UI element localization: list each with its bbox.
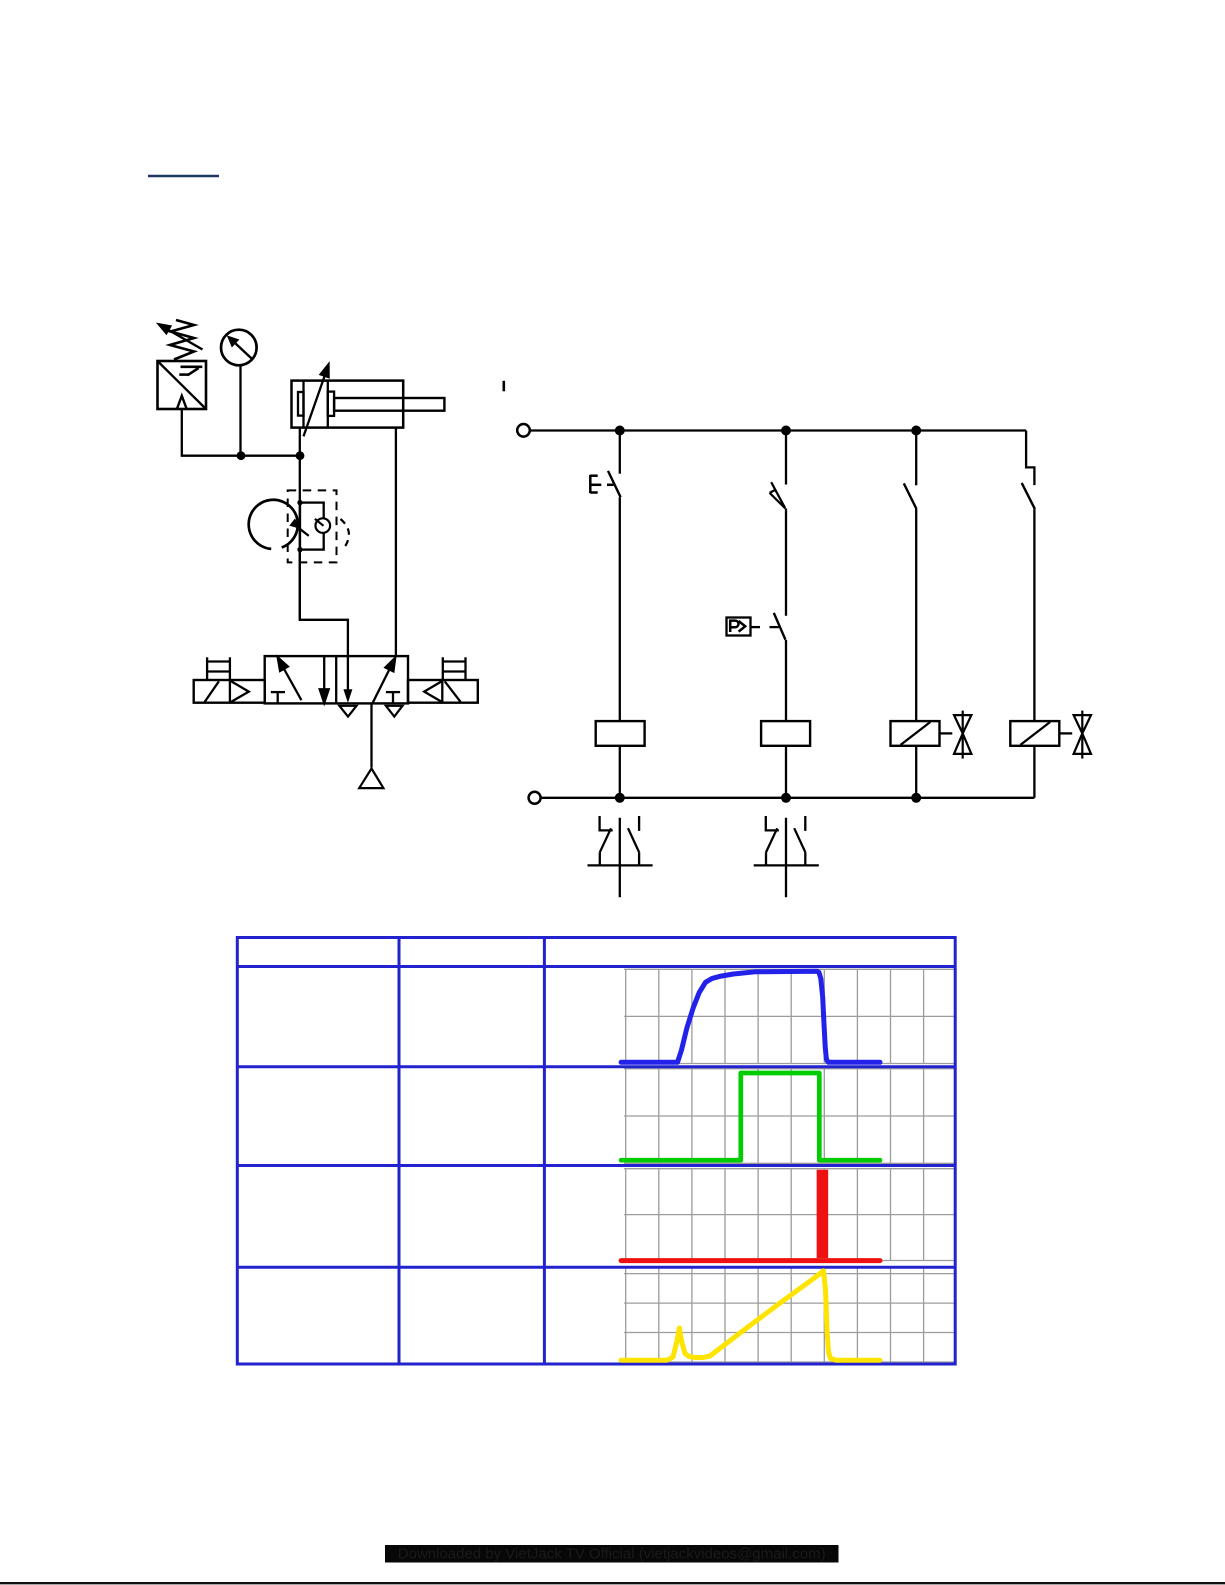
cylinder A1 body xyxy=(292,381,404,428)
flow control valve V2 node top xyxy=(297,500,302,505)
wire top rail xyxy=(530,429,1026,431)
cylinder A1 piston rod xyxy=(334,398,444,411)
relay coil K1 xyxy=(596,721,645,746)
directional valve V1 left cell flow arrow xyxy=(278,657,302,700)
pressure switch B1 adjustment spring xyxy=(170,320,194,360)
solenoid Y1 box left xyxy=(194,680,265,703)
pressure switch link dashes xyxy=(751,626,780,628)
limit switch S3 xyxy=(754,816,819,897)
chart grid row 4 xyxy=(624,1268,957,1363)
wire branch 1 upper xyxy=(619,431,621,474)
flow control valve V2 adjust stroke xyxy=(300,529,309,536)
pressure switch contact blade xyxy=(774,613,786,640)
node bottom rail 3 xyxy=(911,793,921,803)
exhaust triangle port 5 xyxy=(386,706,403,717)
directional valve V1 right cell flow arrow xyxy=(372,658,395,704)
terminal circle bottom rail xyxy=(529,792,541,804)
solenoid Y2 manual override xyxy=(443,657,466,680)
node junction A xyxy=(237,451,246,460)
wire flow valve to directional valve xyxy=(300,550,348,691)
terminal circle top rail xyxy=(517,424,530,437)
wire branch 4 lower xyxy=(1033,746,1035,798)
push button S1 actuator E xyxy=(590,475,613,493)
underline heading mark xyxy=(148,175,219,177)
watermark bar xyxy=(385,1545,839,1563)
supply line port 1 xyxy=(370,703,372,767)
wire branch 1 lower xyxy=(619,746,621,798)
pressure switch contact box P xyxy=(727,618,751,636)
wire branch 2 upper xyxy=(785,431,787,485)
pressure switch B1 spring arrow xyxy=(159,324,203,349)
wire branch 4 middle xyxy=(1033,509,1035,721)
flow control valve V2 check valve xyxy=(315,518,330,533)
directional valve V1 left cell blocked port T xyxy=(271,692,285,703)
solenoid Y1 manual override xyxy=(207,657,230,680)
wire branch 2 bottom xyxy=(785,746,787,798)
exhaust triangle port 3 xyxy=(339,706,356,717)
solenoid Y1 valve symbol xyxy=(954,711,971,759)
trace blue pressure curve xyxy=(621,971,880,1062)
solenoid Y1 pilot triangle xyxy=(231,681,249,702)
node bottom rail 1 xyxy=(615,793,625,803)
directional valve V1 down arrow port 4 xyxy=(343,689,352,703)
wire branch 3 upper xyxy=(915,431,917,486)
limit switch S2 xyxy=(588,816,653,897)
node top rail 2 xyxy=(781,426,791,436)
flow control valve V2 knob arrowhead xyxy=(289,518,300,529)
solenoid Y1 valve link dash xyxy=(940,732,952,734)
flow control valve V2 dashed arc xyxy=(341,519,349,546)
wire cylinder cap port down xyxy=(299,428,301,620)
pressure gauge G1 xyxy=(221,330,257,366)
trace green switching state xyxy=(621,1073,880,1160)
supply triangle port 1 xyxy=(359,769,383,789)
trace red impulse xyxy=(621,1170,880,1261)
pressure switch B1 pilot arrow xyxy=(177,396,187,409)
wire gauge to junction xyxy=(239,365,241,455)
svg-text:Downloaded by VietJack TV Offi: Downloaded by VietJack TV Official (viet… xyxy=(398,1545,826,1562)
relay coil K2 xyxy=(761,721,810,746)
cylinder A1 cushion arrow xyxy=(304,364,329,436)
node bottom rail 2 xyxy=(781,793,791,803)
wire branch 3 lower xyxy=(915,746,917,798)
table frame xyxy=(237,938,955,1365)
wire pressure switch to junction xyxy=(182,409,300,456)
push button S1 contact xyxy=(608,471,621,497)
chart grid row 1 xyxy=(624,969,957,1063)
directional valve V1 right cell blocked port T xyxy=(386,692,400,703)
node junction B xyxy=(296,451,305,460)
trace yellow ramp xyxy=(621,1271,880,1360)
solenoid Y2 valve link dash xyxy=(1060,732,1072,734)
node top rail 3 xyxy=(911,426,921,436)
page bottom rule xyxy=(0,1582,1225,1584)
relay contact K1 a xyxy=(904,483,917,508)
wire cylinder rod port down xyxy=(395,428,397,656)
chart grid row 2 xyxy=(624,1069,957,1164)
node label tick I xyxy=(502,381,505,392)
directional valve V1 body xyxy=(265,656,408,703)
wire branch 4 from rail xyxy=(1026,431,1034,486)
flow control valve V2 dashed enclosure xyxy=(288,490,337,562)
relay contact K2 a xyxy=(1022,483,1035,509)
solenoid Y2 pilot triangle xyxy=(424,681,442,702)
flow control valve V2 knob circle xyxy=(249,500,298,549)
flow control valve V2 node bottom xyxy=(297,547,302,552)
solenoid coil Y2 xyxy=(1010,721,1059,746)
solenoid Y2 valve symbol xyxy=(1074,711,1091,759)
pressure switch B1 contact symbol xyxy=(179,367,202,375)
chart grid row 3 xyxy=(624,1169,957,1261)
solenoid coil Y1 xyxy=(891,721,940,746)
directional valve V1 down arrow port 2 xyxy=(320,656,329,703)
node top rail 1 xyxy=(615,426,625,436)
pressure switch B1 body xyxy=(158,361,207,409)
pressure switch label P> xyxy=(730,621,745,632)
wire branch 2 middle xyxy=(785,509,787,616)
relay contact K2 flag xyxy=(770,482,786,508)
solenoid Y2 box right xyxy=(408,680,478,703)
wire branch 1 middle xyxy=(619,497,621,721)
wire branch 2 lower xyxy=(785,640,787,721)
wire bottom rail xyxy=(541,797,1035,799)
flow control valve V2 body xyxy=(300,503,324,550)
wire branch 3 middle xyxy=(915,509,917,721)
